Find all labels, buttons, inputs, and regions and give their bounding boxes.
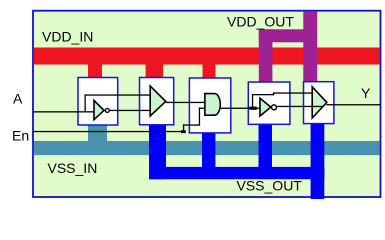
wire U3 output to U4 (220, 108, 261, 109)
VDD_IN stub to U3 (203, 64, 216, 79)
cell box U1 (78, 78, 118, 126)
VSS_IN stub from U1 (88, 125, 107, 142)
cell box U3 (189, 78, 230, 133)
VSS_OUT leg from U2 (149, 125, 166, 180)
AND gate U3 (205, 94, 220, 116)
inverter gate U1 (94, 100, 104, 119)
VDD_OUT rail right leg to U5 (303, 11, 317, 82)
wire En step vertical (183, 124, 184, 131)
svg-text:VDD_IN: VDD_IN (42, 29, 93, 45)
svg-text:Y: Y (361, 85, 371, 101)
cell box U4 (248, 82, 290, 124)
wire U4 top feedthrough (252, 94, 274, 95)
VSS_OUT leg from U3 (202, 133, 215, 167)
wire U4 junction dash (249, 107, 256, 110)
VDD_IN stub to U2 (146, 64, 164, 78)
svg-text:En: En (12, 127, 29, 143)
svg-text:A: A (13, 91, 23, 107)
VDD_IN stub to U1 (88, 64, 102, 78)
VDD_OUT rail left leg to U4 (259, 29, 273, 82)
inverter bubble U4 (272, 105, 277, 110)
wire En step horizontal (183, 124, 200, 125)
buffer gate U2 (150, 86, 166, 116)
VDD_OUT rail top bar (259, 29, 317, 42)
wire U1 output to U2 (110, 110, 151, 111)
wire U1 feedback vertical (85, 94, 86, 112)
wire En rise vertical (199, 108, 200, 126)
cell box U5 (304, 82, 334, 124)
svg-text:VDD_OUT: VDD_OUT (227, 14, 294, 30)
wire U2 output to U3 (166, 102, 205, 103)
wire En input (33, 131, 184, 132)
VSS_OUT leg from U5 down to boundary (311, 123, 325, 199)
wire U1 top feedthrough to U2 (85, 94, 151, 95)
inverter bubble U1 (105, 108, 109, 112)
wire U4 top to U5 (273, 92, 312, 93)
svg-text:VSS_OUT: VSS_OUT (237, 178, 303, 194)
VSS_OUT leg from U4 (259, 124, 273, 167)
cell box U2 (140, 78, 174, 125)
wire U4 top jog vertical (273, 92, 274, 95)
wire U4 output to U5 (277, 106, 323, 107)
wire En into U3 (199, 108, 206, 109)
wire A input (33, 111, 94, 112)
inverter gate U4 (260, 98, 271, 116)
VSS_IN rail (teal bar) (34, 141, 380, 155)
VDD_IN rail (red bar) (34, 48, 380, 65)
outer cell boundary (33, 11, 381, 197)
VSS_OUT horizontal bar (149, 167, 324, 179)
svg-text:VSS_IN: VSS_IN (48, 160, 98, 176)
wire En junction dash (181, 130, 186, 133)
buffer gate U5 (312, 87, 327, 118)
wire Y output (326, 104, 380, 105)
wire U4 vertical to top (252, 94, 253, 108)
